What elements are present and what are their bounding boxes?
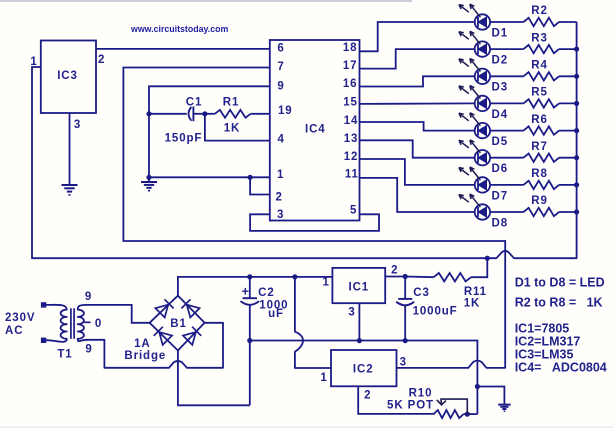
IC box IC4 [270, 40, 360, 221]
svg-text:IC1: IC1 [348, 282, 369, 294]
pin 14 label IC4 right [344, 115, 359, 127]
label 5K POT [387, 400, 434, 412]
wire IC4.17 to D2 [360, 49, 475, 69]
label R8 [531, 168, 548, 180]
pin 5 label IC4 right [350, 204, 357, 216]
wire C2 bottom lead [249, 305, 251, 406]
svg-text:R3: R3 [531, 32, 548, 44]
svg-text:2: 2 [391, 265, 398, 277]
junction IC1.3 rail [357, 338, 362, 343]
pin 16 label IC4 right [343, 78, 358, 90]
svg-text:3: 3 [348, 307, 355, 319]
resistor R4 [524, 72, 577, 80]
capacitor C1 [189, 106, 205, 121]
pin 7 label IC4 left [277, 61, 284, 73]
svg-text:C3: C3 [413, 287, 430, 299]
wire IC2.2 [358, 386, 434, 414]
wire D7 to R8 [490, 184, 523, 186]
svg-text:R9: R9 [531, 195, 548, 207]
label C3 [413, 287, 430, 299]
svg-text:R4: R4 [531, 60, 548, 72]
svg-text:D4: D4 [492, 109, 509, 121]
junction C2 ground rail [247, 338, 252, 343]
svg-text:1: 1 [320, 372, 327, 384]
svg-text:IC4= ADC0804: IC4= ADC0804 [515, 361, 607, 375]
legend IC1 [515, 322, 570, 336]
IC box IC3 [41, 41, 96, 114]
resistor R8 [524, 181, 577, 189]
pin 15 label IC4 right [343, 96, 358, 108]
pin 9 label IC4 left [277, 81, 284, 93]
svg-text:230V: 230V [5, 312, 35, 324]
svg-text:IC3: IC3 [57, 70, 78, 82]
svg-text:1K: 1K [224, 123, 241, 135]
svg-text:17: 17 [343, 60, 358, 72]
wire IC4.3 to IC4.5 strap [250, 214, 379, 231]
svg-text:1A: 1A [134, 338, 151, 350]
ground IC3 [62, 185, 78, 195]
label 1K R1 [224, 123, 241, 135]
svg-text:0: 0 [95, 318, 102, 330]
junction R10 wiper [465, 412, 470, 417]
wire IC2.3 [397, 361, 506, 368]
LED D7 [459, 167, 490, 192]
label 9 top [85, 291, 92, 303]
svg-text:9: 9 [277, 81, 284, 93]
wire +5V bottom rail [32, 251, 577, 258]
pin 4 label IC4 left [278, 134, 285, 146]
svg-text:5: 5 [350, 204, 357, 216]
title www.circuitstoday.com [130, 24, 228, 34]
legend D1 to D8 [515, 276, 605, 290]
wire C3 top lead [404, 277, 406, 299]
diode B1 top-right [181, 299, 199, 317]
svg-text:T1: T1 [57, 349, 72, 361]
pin 2 label IC3 [98, 54, 105, 66]
wire D6 to R7 [490, 157, 523, 159]
wire IC4.9 to ground [149, 86, 270, 182]
transformer T1 primary coil [46, 305, 67, 342]
label B1 [170, 318, 187, 330]
transformer T1 center tap [84, 321, 90, 323]
decor bottom [0, 426, 614, 428]
svg-text:2: 2 [98, 54, 105, 66]
wire D2 to R3 [490, 48, 523, 50]
LED D3 [459, 59, 490, 85]
svg-text:D8: D8 [492, 217, 509, 229]
pin 1 label IC2 [320, 372, 327, 384]
wire IC4.7 loop [123, 68, 505, 368]
junction rail row 3 [574, 74, 579, 79]
svg-text:B1: B1 [170, 318, 187, 330]
label R11 [464, 286, 487, 298]
resistor R9 [524, 208, 577, 216]
junction IC2 branch [292, 274, 297, 279]
pot wiper arrow [437, 399, 468, 414]
label D3 [492, 82, 509, 94]
wire C3 bottom lead [404, 305, 406, 340]
pin 2 label IC2 [364, 390, 371, 402]
wire LED rail [576, 22, 578, 258]
label D6 [492, 163, 509, 175]
resistor R6 [524, 126, 577, 134]
svg-text:3: 3 [74, 119, 81, 131]
legend IC4 [515, 361, 607, 375]
junction rail row 4 [574, 101, 579, 106]
wire IC3.1 left rail [32, 67, 41, 258]
label D2 [492, 55, 509, 67]
label R4 [531, 60, 548, 72]
label R3 [531, 32, 548, 44]
wire IC4.13 to D6 [360, 140, 475, 157]
label D8 [492, 217, 509, 229]
junction rail row 6 [574, 155, 579, 160]
bridge B1 outline [150, 296, 205, 351]
wire T1 top to bridge [87, 305, 150, 323]
svg-text:5K POT: 5K POT [387, 400, 434, 412]
junction rail row 2 [574, 47, 579, 52]
resistor R7 [524, 154, 577, 162]
junction C1/R1 [202, 111, 207, 116]
wire D1 to R2 [490, 21, 523, 23]
wire D3 to R4 [490, 75, 523, 77]
wire IC4.4 [205, 114, 270, 141]
resistor R5 [524, 99, 577, 107]
svg-text:R2: R2 [531, 5, 548, 17]
wire bridge top +rail [178, 277, 333, 297]
junction pin1/pin2 [248, 175, 253, 180]
svg-text:3: 3 [400, 357, 407, 369]
ground C1 node [141, 182, 157, 191]
label D1 [492, 27, 509, 39]
diode B1 bottom-right [183, 327, 201, 345]
wire IC4.11 to D8 [360, 178, 475, 212]
wire ground branch [477, 387, 504, 405]
svg-text:R11: R11 [464, 286, 487, 298]
label D5 [492, 136, 509, 148]
svg-text:R8: R8 [531, 168, 548, 180]
wire D4 to R5 [490, 102, 523, 104]
label 1000uF C3 [413, 306, 458, 318]
svg-text:IC3=LM35: IC3=LM35 [515, 348, 574, 362]
wire IC1.2 [385, 276, 405, 278]
pin 1 label IC3 [30, 56, 37, 68]
capacitor C3 [397, 299, 414, 305]
wire bridge bottom rail [178, 351, 250, 406]
wire D5 to R6 [490, 130, 523, 132]
junction C2 top [247, 274, 252, 279]
legend IC2 [515, 335, 581, 349]
svg-text:13: 13 [344, 133, 359, 145]
pin 3 label IC1 [348, 307, 355, 319]
label R2 [531, 5, 548, 17]
svg-text:12: 12 [344, 151, 359, 163]
resistor R2 [524, 18, 577, 26]
LED D5 [459, 113, 490, 139]
label D4 [492, 109, 509, 121]
legend IC3 [515, 348, 574, 362]
svg-text:15: 15 [343, 96, 358, 108]
svg-text:D1: D1 [492, 27, 509, 39]
junction pin1 ground rail [146, 175, 151, 180]
LED D1 [459, 4, 490, 30]
wire IC4.14 to D5 [360, 122, 475, 131]
svg-text:AC: AC [5, 325, 23, 337]
label C2 [258, 287, 275, 299]
svg-text:D7: D7 [492, 190, 509, 202]
svg-text:R6: R6 [531, 114, 548, 126]
wire C2 top lead [249, 277, 251, 298]
label 1A [134, 338, 151, 350]
svg-text:1000uF: 1000uF [413, 306, 458, 318]
transformer T1 secondary coil [78, 305, 87, 341]
label 230V [5, 312, 35, 324]
wire D8 to R9 [490, 211, 523, 213]
pin 13 label IC4 right [344, 133, 359, 145]
IC box IC2 [331, 350, 397, 386]
LED D6 [459, 140, 490, 166]
wire IC4.16 to D3 [360, 76, 475, 86]
capacitor C2 [241, 298, 258, 305]
LED D2 [459, 31, 490, 56]
svg-text:16: 16 [343, 78, 358, 90]
junction rail row 5 [574, 128, 579, 133]
svg-text:11: 11 [345, 169, 359, 181]
wire T1 bottom to bridge [87, 323, 223, 368]
wire IC1.3 [358, 303, 360, 340]
svg-text:+: + [242, 285, 249, 299]
svg-text:R2 to R8 = 1K: R2 to R8 = 1K [515, 296, 603, 310]
legend R2 to R8 [515, 296, 603, 310]
pin 17 label IC4 right [343, 60, 358, 72]
svg-text:7: 7 [277, 61, 284, 73]
resistor R10 5K POT [434, 410, 478, 418]
pin 12 label IC4 right [344, 151, 359, 163]
pin 2 label IC4 left [276, 192, 283, 204]
wire C1 left lead [149, 113, 187, 115]
svg-text:IC2=LM317: IC2=LM317 [515, 335, 581, 349]
wire IC4.15 to D4 [360, 102, 475, 105]
LED D8 [459, 194, 490, 220]
label 0 [95, 318, 102, 330]
svg-text:IC2: IC2 [353, 364, 374, 376]
svg-text:R5: R5 [531, 87, 548, 99]
junction ground branch [475, 384, 480, 389]
pin 19 label IC4 left [278, 105, 293, 117]
svg-text:2: 2 [276, 192, 283, 204]
pin 11 label IC4 right [345, 169, 359, 181]
svg-text:www.circuitstoday.com: www.circuitstoday.com [130, 24, 228, 34]
decor [0, 0, 412, 2]
label R5 [531, 87, 548, 99]
pin 3 label IC4 left [277, 209, 284, 221]
diode B1 top-left [155, 299, 173, 317]
junction C3 rail [403, 338, 408, 343]
wire IC4.1 [149, 176, 270, 178]
label D7 [492, 190, 509, 202]
pin 1 label IC1 [323, 277, 330, 289]
label C1 [186, 97, 203, 109]
svg-text:D3: D3 [492, 82, 509, 94]
svg-text:19: 19 [278, 105, 293, 117]
junction C1 left [146, 111, 151, 116]
label uF [268, 308, 284, 320]
label Bridge [124, 350, 166, 362]
wire IC3.3 ground lead [69, 113, 71, 185]
svg-text:1: 1 [323, 277, 330, 289]
label R10 [409, 388, 433, 400]
label 1K R11 [464, 298, 481, 310]
label AC [5, 325, 23, 337]
label 1000 [259, 300, 288, 312]
junction rail row 7 [574, 182, 579, 187]
diode B1 bottom-left [154, 327, 172, 345]
IC box IC1 [332, 268, 385, 303]
svg-text:R7: R7 [531, 141, 548, 153]
wire ground rail [250, 341, 478, 415]
pin 3 label IC3 [74, 119, 81, 131]
svg-text:R1: R1 [223, 97, 240, 109]
junction IC1.2 node [403, 274, 408, 279]
resistor R3 [524, 45, 577, 53]
resistor R1 [205, 110, 270, 118]
label R1 [223, 97, 240, 109]
svg-text:D6: D6 [492, 163, 509, 175]
label 9 bottom [85, 344, 92, 356]
label R6 [531, 114, 548, 126]
junction rail row 8 [574, 209, 579, 214]
terminal bottom [41, 338, 46, 343]
svg-text:2: 2 [364, 390, 371, 402]
svg-text:6: 6 [277, 43, 284, 55]
svg-text:IC4: IC4 [305, 124, 326, 136]
svg-text:150pF: 150pF [165, 133, 203, 145]
svg-text:IC1=7805: IC1=7805 [515, 322, 570, 336]
wire IC4.18 to D1 [360, 22, 475, 51]
wire IC4.2 [250, 177, 270, 194]
svg-text:C2: C2 [258, 287, 275, 299]
svg-text:9: 9 [85, 344, 92, 356]
svg-text:D5: D5 [492, 136, 509, 148]
svg-text:1: 1 [277, 169, 284, 181]
svg-text:C1: C1 [186, 97, 203, 109]
ground supply [498, 405, 510, 412]
svg-text:uF: uF [268, 308, 284, 320]
label T1 [57, 349, 72, 361]
junction R11 rail [485, 256, 490, 261]
svg-text:3: 3 [277, 209, 284, 221]
wire IC3.2 to IC4.6 [96, 48, 270, 50]
label R9 [531, 195, 548, 207]
svg-text:D1 to D8 = LED: D1 to D8 = LED [515, 276, 605, 290]
LED D4 [459, 86, 490, 112]
wire to IC2.1 [295, 277, 331, 368]
svg-text:1K: 1K [464, 298, 481, 310]
resistor R11 [405, 258, 487, 281]
pin 2 label IC1 [391, 265, 398, 277]
svg-text:R10: R10 [409, 388, 433, 400]
pin 18 label IC4 right [343, 42, 358, 54]
label + C2 [242, 285, 249, 299]
svg-text:14: 14 [344, 115, 359, 127]
terminal top [41, 302, 46, 307]
pin 3 label IC2 [400, 357, 407, 369]
wire IC4.12 to D7 [360, 159, 475, 185]
label R7 [531, 141, 548, 153]
label 150pF [165, 133, 203, 145]
pin 6 label IC4 left [277, 43, 284, 55]
svg-text:4: 4 [278, 134, 285, 146]
transformer T1 core [71, 308, 74, 339]
svg-text:D2: D2 [492, 55, 509, 67]
svg-text:9: 9 [85, 291, 92, 303]
svg-text:Bridge: Bridge [124, 350, 166, 362]
svg-text:18: 18 [343, 42, 358, 54]
pin 1 label IC4 left [277, 169, 284, 181]
